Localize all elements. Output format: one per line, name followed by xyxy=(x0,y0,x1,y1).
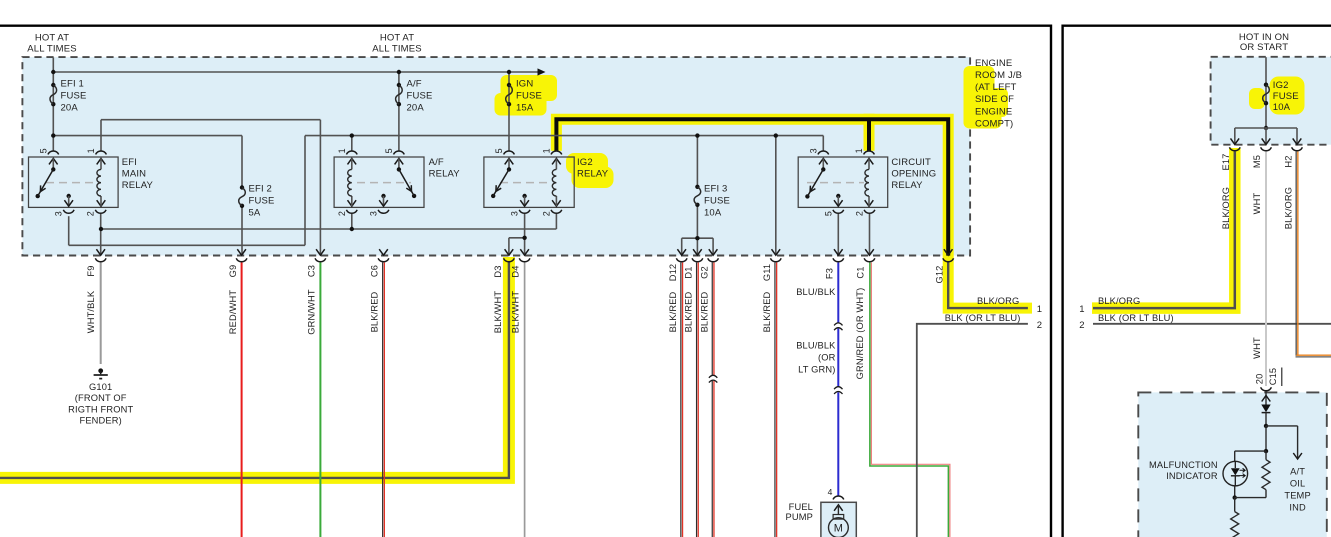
svg-text:HOT AT: HOT AT xyxy=(380,32,414,43)
svg-text:M: M xyxy=(834,523,843,535)
svg-text:2: 2 xyxy=(86,211,96,216)
svg-text:IG2: IG2 xyxy=(1273,80,1289,91)
svg-text:IG2: IG2 xyxy=(577,157,593,168)
svg-text:20A: 20A xyxy=(407,103,425,114)
svg-text:2: 2 xyxy=(855,211,865,216)
svg-text:2: 2 xyxy=(1037,320,1042,331)
svg-text:EFI 3: EFI 3 xyxy=(704,183,727,194)
svg-text:FENDER): FENDER) xyxy=(80,416,122,426)
svg-text:10A: 10A xyxy=(704,208,722,219)
svg-text:PUMP: PUMP xyxy=(786,512,813,522)
svg-text:BLK (OR LT BLU): BLK (OR LT BLU) xyxy=(945,313,1021,323)
svg-text:FUSE: FUSE xyxy=(249,195,275,206)
svg-text:EFI 2: EFI 2 xyxy=(249,183,272,194)
svg-text:FUSE: FUSE xyxy=(407,90,433,101)
svg-text:3: 3 xyxy=(369,211,379,216)
svg-text:20A: 20A xyxy=(61,103,79,114)
svg-text:OPENING: OPENING xyxy=(891,168,936,179)
svg-text:BLU/BLK: BLU/BLK xyxy=(796,340,836,350)
svg-text:A/F: A/F xyxy=(407,78,422,89)
svg-text:H2: H2 xyxy=(1284,155,1294,167)
svg-text:OR START: OR START xyxy=(1240,42,1288,53)
svg-text:5A: 5A xyxy=(249,208,261,219)
svg-text:RELAY: RELAY xyxy=(429,168,461,179)
svg-text:2: 2 xyxy=(1079,320,1084,331)
svg-text:G11: G11 xyxy=(762,264,772,281)
svg-text:1: 1 xyxy=(86,148,96,153)
svg-text:SIDE OF: SIDE OF xyxy=(975,94,1014,105)
svg-text:G12: G12 xyxy=(934,265,944,283)
svg-text:BLK/WHT: BLK/WHT xyxy=(493,291,503,334)
svg-text:MALFUNCTION: MALFUNCTION xyxy=(1149,460,1218,470)
svg-text:(AT LEFT: (AT LEFT xyxy=(975,82,1017,93)
svg-text:BLK/ORG: BLK/ORG xyxy=(1098,296,1140,306)
svg-text:3: 3 xyxy=(510,211,520,216)
svg-text:BLK/RED: BLK/RED xyxy=(370,291,380,332)
svg-text:ALL TIMES: ALL TIMES xyxy=(372,43,421,54)
svg-text:1: 1 xyxy=(1079,304,1084,315)
svg-text:1: 1 xyxy=(541,148,551,153)
svg-text:RELAY: RELAY xyxy=(122,180,154,191)
svg-text:OIL: OIL xyxy=(1290,478,1305,488)
svg-text:5: 5 xyxy=(823,211,833,216)
svg-text:EFI: EFI xyxy=(122,157,137,168)
svg-text:FUEL: FUEL xyxy=(789,502,813,512)
svg-text:RIGTH FRONT: RIGTH FRONT xyxy=(68,404,133,414)
svg-text:IND: IND xyxy=(1289,502,1306,512)
svg-text:COMPT): COMPT) xyxy=(975,118,1013,129)
svg-text:A/T: A/T xyxy=(1290,466,1305,476)
svg-text:GRN/RED (OR WHT): GRN/RED (OR WHT) xyxy=(855,288,865,380)
svg-text:FUSE: FUSE xyxy=(1273,91,1299,102)
svg-text:(FRONT OF: (FRONT OF xyxy=(75,393,127,403)
svg-text:TEMP: TEMP xyxy=(1284,490,1310,500)
svg-text:10A: 10A xyxy=(1273,102,1291,113)
svg-text:C15: C15 xyxy=(1268,368,1278,386)
svg-text:WHT/BLK: WHT/BLK xyxy=(86,290,96,333)
svg-text:IGN: IGN xyxy=(516,78,533,89)
svg-text:C3: C3 xyxy=(307,265,317,277)
svg-text:4: 4 xyxy=(828,487,833,497)
svg-text:3: 3 xyxy=(808,148,818,153)
svg-text:RELAY: RELAY xyxy=(577,168,609,179)
svg-text:RED/WHT: RED/WHT xyxy=(228,290,238,335)
svg-text:BLK/RED: BLK/RED xyxy=(700,291,710,332)
svg-text:RELAY: RELAY xyxy=(891,180,923,191)
svg-text:E17: E17 xyxy=(1221,154,1231,171)
svg-text:ENGINE: ENGINE xyxy=(975,58,1012,69)
svg-text:BLK/ORG: BLK/ORG xyxy=(1284,187,1294,229)
svg-text:C6: C6 xyxy=(370,265,380,277)
svg-text:1: 1 xyxy=(1037,304,1042,315)
svg-text:WHT: WHT xyxy=(1252,193,1262,215)
svg-text:HOT AT: HOT AT xyxy=(35,32,69,43)
svg-text:BLK/ORG: BLK/ORG xyxy=(1221,187,1231,229)
svg-text:BLK/RED: BLK/RED xyxy=(684,291,694,332)
svg-text:G101: G101 xyxy=(89,382,112,392)
svg-text:FUSE: FUSE xyxy=(516,90,542,101)
svg-text:BLK/RED: BLK/RED xyxy=(762,291,772,332)
svg-text:(OR: (OR xyxy=(818,352,836,362)
svg-text:A/F: A/F xyxy=(429,157,444,168)
svg-text:ALL TIMES: ALL TIMES xyxy=(27,43,76,54)
svg-text:LT GRN): LT GRN) xyxy=(798,365,835,375)
svg-text:MAIN: MAIN xyxy=(122,168,146,179)
svg-text:D3: D3 xyxy=(493,265,503,277)
svg-text:F3: F3 xyxy=(825,268,835,279)
svg-text:ROOM J/B: ROOM J/B xyxy=(975,70,1022,81)
svg-text:WHT: WHT xyxy=(1252,337,1262,359)
svg-text:INDICATOR: INDICATOR xyxy=(1166,471,1218,481)
svg-text:GRN/WHT: GRN/WHT xyxy=(307,289,317,335)
svg-text:CIRCUIT: CIRCUIT xyxy=(891,157,931,168)
svg-text:20: 20 xyxy=(1254,374,1264,385)
svg-text:5: 5 xyxy=(494,148,504,153)
svg-text:3: 3 xyxy=(54,211,64,216)
svg-text:EFI 1: EFI 1 xyxy=(61,78,84,89)
svg-text:G9: G9 xyxy=(228,265,238,278)
svg-text:D1: D1 xyxy=(684,266,694,278)
svg-text:15A: 15A xyxy=(516,103,534,114)
svg-text:BLK/ORG: BLK/ORG xyxy=(977,296,1019,306)
svg-text:BLK/RED: BLK/RED xyxy=(668,291,678,332)
svg-text:M5: M5 xyxy=(1252,155,1262,168)
svg-text:BLK/WHT: BLK/WHT xyxy=(510,291,520,334)
svg-text:FUSE: FUSE xyxy=(61,90,87,101)
svg-text:G2: G2 xyxy=(700,266,710,279)
svg-text:ENGINE: ENGINE xyxy=(975,106,1012,117)
svg-text:2: 2 xyxy=(337,211,347,216)
svg-text:BLU/BLK: BLU/BLK xyxy=(796,287,836,297)
svg-text:5: 5 xyxy=(38,148,48,153)
svg-text:D12: D12 xyxy=(668,264,678,282)
svg-text:C1: C1 xyxy=(856,266,866,278)
svg-text:5: 5 xyxy=(384,148,394,153)
svg-text:F9: F9 xyxy=(86,265,96,276)
svg-text:BLK (OR LT BLU): BLK (OR LT BLU) xyxy=(1098,313,1174,323)
svg-text:1: 1 xyxy=(337,148,347,153)
svg-text:D4: D4 xyxy=(510,265,520,277)
svg-text:FUSE: FUSE xyxy=(704,195,730,206)
svg-text:2: 2 xyxy=(541,211,551,216)
svg-text:1: 1 xyxy=(854,148,864,153)
